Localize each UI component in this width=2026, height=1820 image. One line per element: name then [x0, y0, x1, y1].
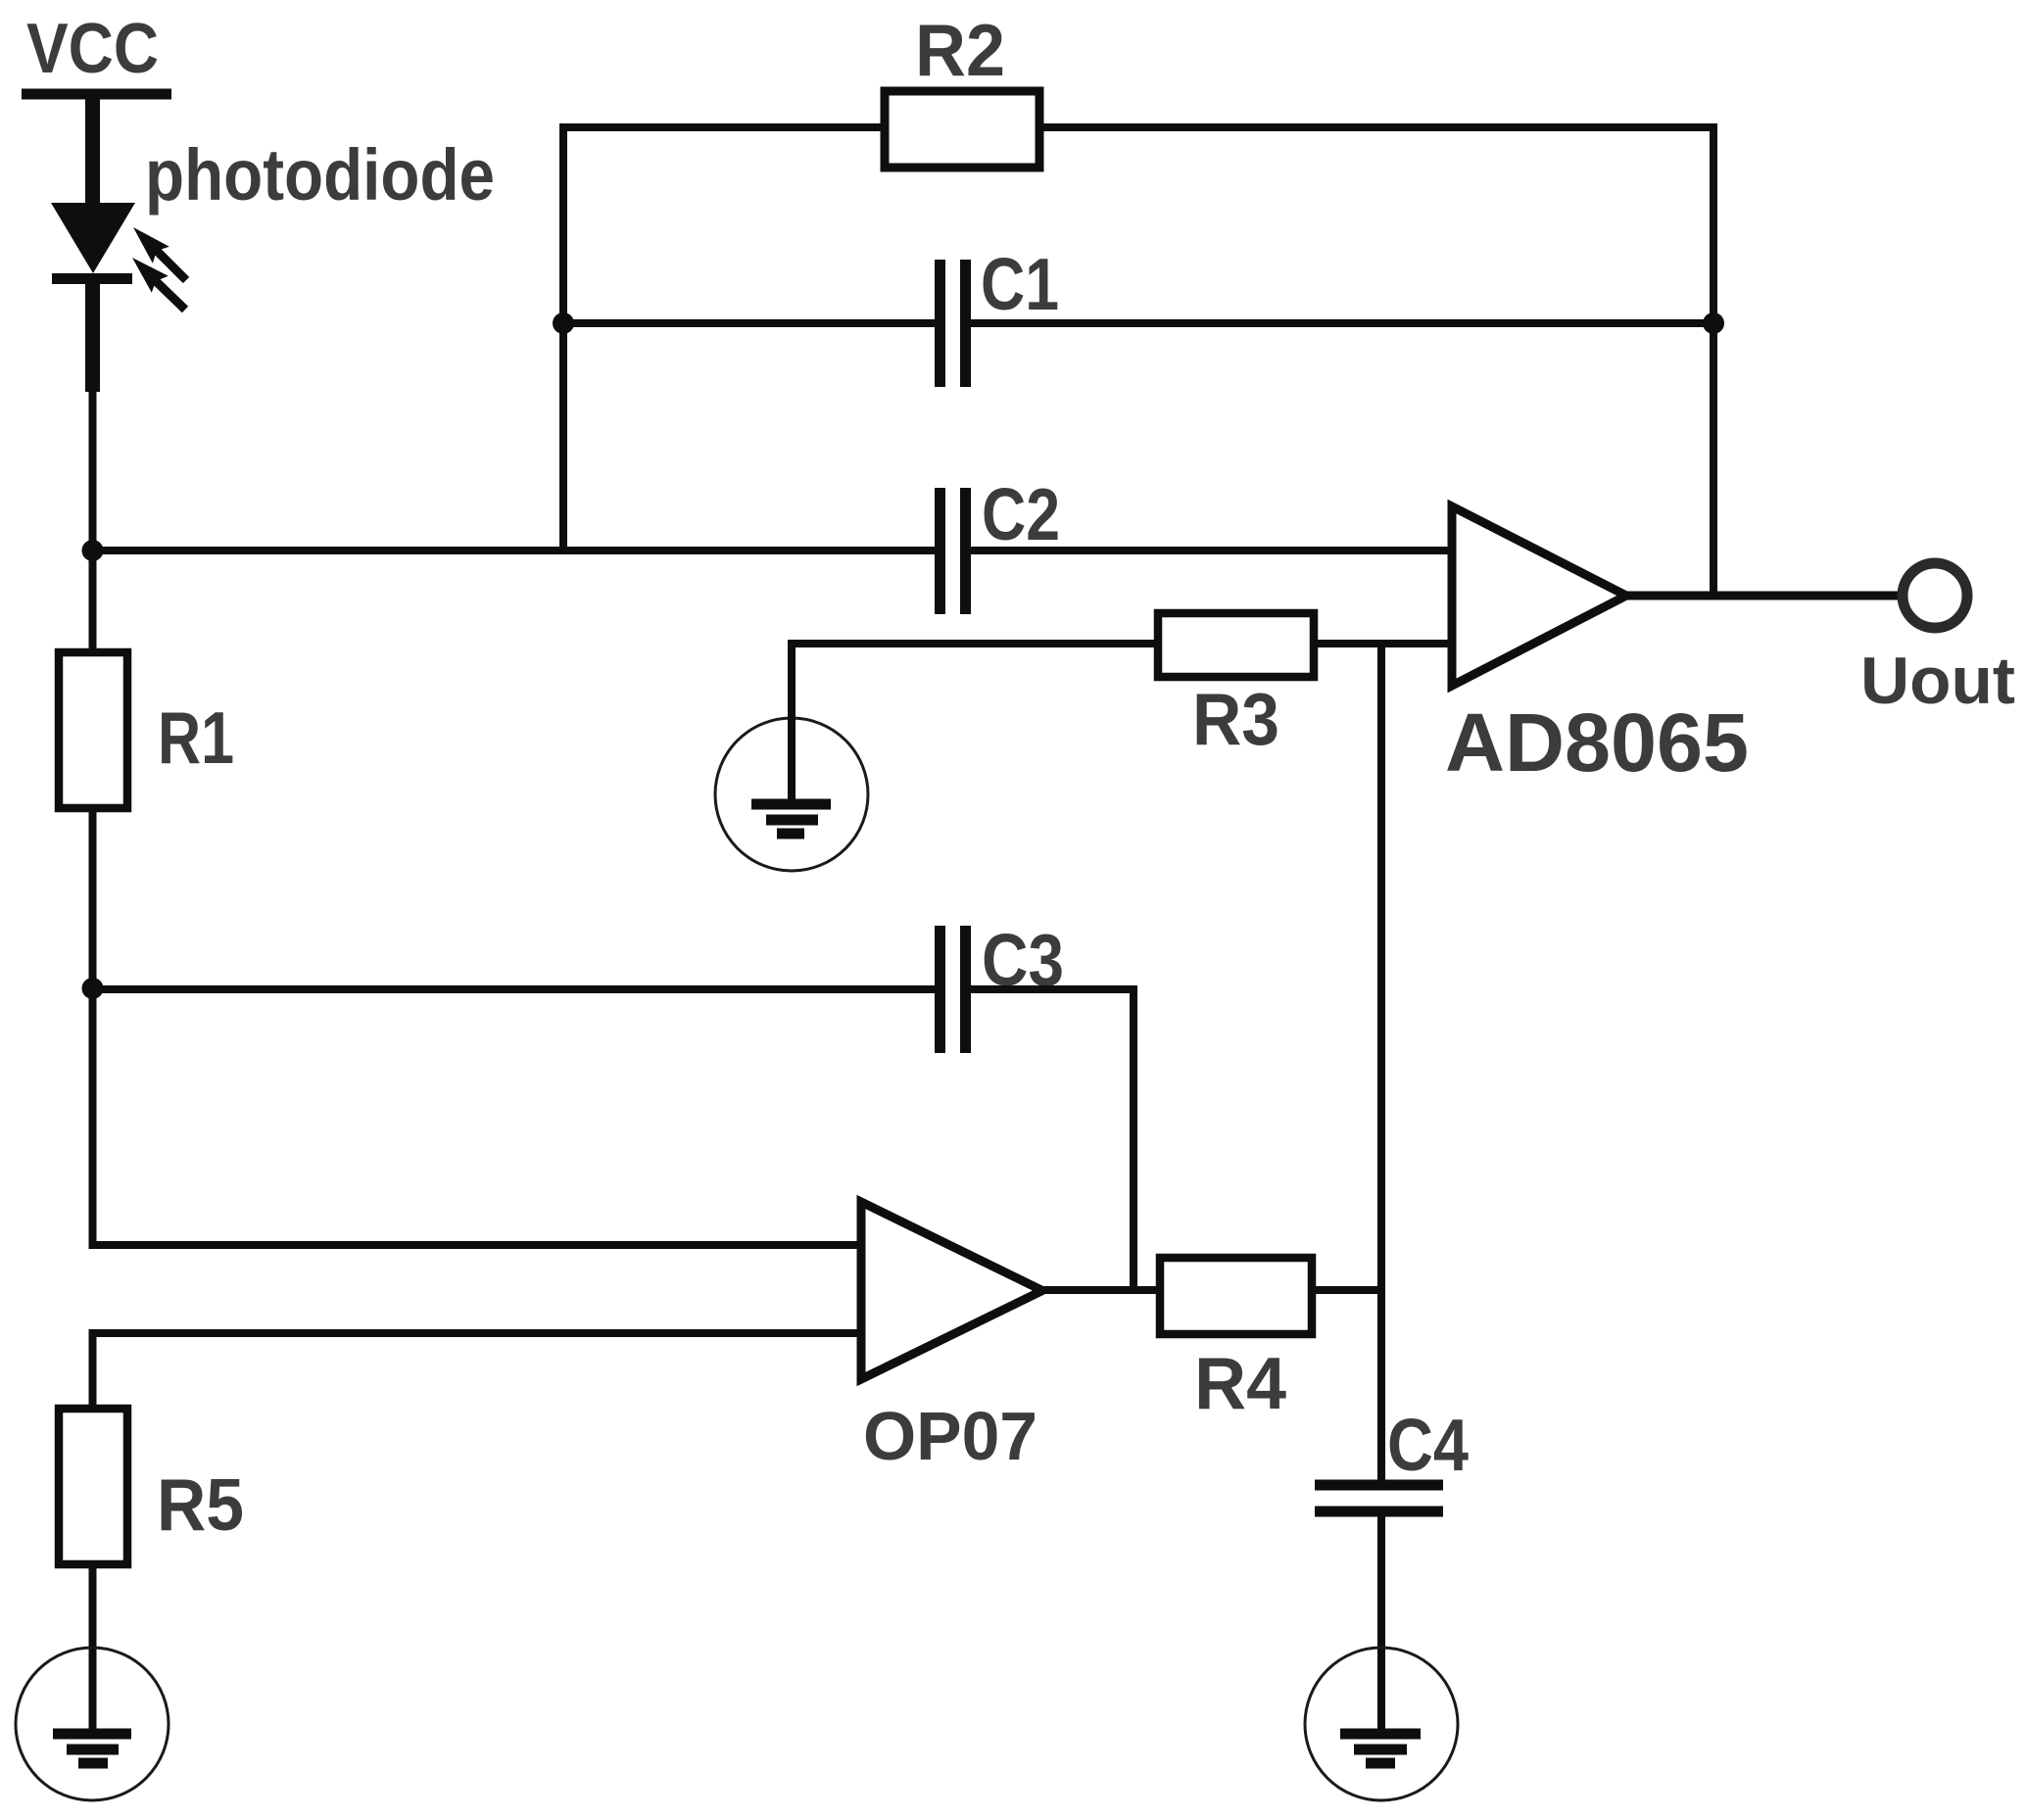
- capacitor C4: [1315, 1485, 1443, 1511]
- node A junction dot: [82, 540, 104, 561]
- wire node A down to R1: [89, 551, 97, 652]
- resistor R1: [59, 652, 127, 808]
- wire R5 bottom to ground: [89, 1564, 97, 1739]
- svg-text:AD8065: AD8065: [1445, 696, 1749, 789]
- capacitor C2: [941, 488, 966, 614]
- wire R4 right to node C: [1312, 1286, 1381, 1294]
- svg-text:R5: R5: [157, 1463, 244, 1546]
- svg-text:R2: R2: [915, 9, 1005, 91]
- wire C4 bottom to ground: [1377, 1511, 1385, 1739]
- R5 label: [157, 1463, 244, 1546]
- wire photodiode cathode down to node A: [89, 392, 97, 551]
- node E junction dot (C1 right on feedback line): [1703, 312, 1724, 334]
- C3 label: [982, 919, 1064, 1001]
- photodiode label: [145, 134, 495, 216]
- ground symbol G2 (below C4): [1305, 1648, 1458, 1800]
- wire U1 output to Uout terminal: [1626, 592, 1898, 600]
- photodiode D1: [51, 203, 135, 392]
- wire OP07 output to R4: [1042, 1286, 1160, 1294]
- op-amp U1 AD8065: [1452, 506, 1626, 686]
- wire C3 right plate to OP07 output node: [971, 989, 1134, 1290]
- wire node D to C1 left plate: [563, 319, 935, 327]
- svg-text:C1: C1: [981, 243, 1059, 325]
- power symbol VCC: [22, 89, 171, 100]
- feedback wire top: R2 branch: [563, 127, 885, 551]
- R3 label: [1192, 678, 1279, 760]
- wire VCC to photodiode anode: [85, 94, 100, 205]
- wire node A to C2 left plate: [93, 547, 936, 554]
- wire R3 right to op-amp U1 inverting input: [1314, 640, 1452, 647]
- wire node C vertical from R3 net down to C4: [1377, 644, 1385, 1480]
- C2 label: [982, 473, 1060, 555]
- resistor R3: [1158, 613, 1314, 677]
- ground symbol G1 (below R5): [16, 1648, 169, 1800]
- OP07 label: [863, 1398, 1037, 1474]
- VCC label: [26, 10, 159, 88]
- R1 label: [158, 696, 234, 779]
- resistor R2: [885, 91, 1039, 168]
- svg-text:OP07: OP07: [863, 1398, 1037, 1474]
- capacitor C1: [941, 260, 966, 387]
- AD8065 label: [1445, 696, 1749, 789]
- C1 label: [981, 243, 1059, 325]
- output terminal Uout: [1903, 563, 1967, 628]
- wire C1 right plate to node E: [971, 319, 1713, 327]
- photodiode light arrow 2: [132, 258, 185, 310]
- wire C2 right plate to op-amp U1 non-inverting input: [971, 547, 1452, 554]
- wire node B to C3 left plate: [93, 985, 936, 993]
- svg-text:photodiode: photodiode: [145, 134, 495, 216]
- node D junction dot (C1 left): [553, 312, 574, 334]
- svg-text:R1: R1: [158, 696, 234, 779]
- node B junction dot: [82, 978, 104, 999]
- svg-text:VCC: VCC: [26, 10, 159, 88]
- svg-text:R3: R3: [1192, 678, 1279, 760]
- resistor R5: [59, 1409, 127, 1564]
- svg-text:R4: R4: [1194, 1342, 1286, 1424]
- wire R1 bottom to node B: [93, 808, 862, 1245]
- svg-text:C2: C2: [982, 473, 1060, 555]
- R4 label: [1194, 1342, 1286, 1424]
- R2 label: [915, 9, 1005, 91]
- Uout label: [1860, 644, 2015, 718]
- resistor R4: [1160, 1258, 1312, 1334]
- ground symbol G3 (at R3 input): [715, 718, 868, 871]
- wire op-amp U2 inverting input to R5: [93, 1333, 862, 1409]
- wire R2 right to output node: [1039, 127, 1713, 596]
- photodiode light arrow 1: [133, 227, 186, 280]
- C4 label: [1387, 1404, 1469, 1486]
- svg-text:C4: C4: [1387, 1404, 1469, 1486]
- capacitor C3: [941, 926, 966, 1053]
- wire ground G3 up and right to R3: [792, 644, 1158, 809]
- op-amp U2 OP07: [861, 1202, 1042, 1379]
- svg-text:Uout: Uout: [1860, 644, 2015, 718]
